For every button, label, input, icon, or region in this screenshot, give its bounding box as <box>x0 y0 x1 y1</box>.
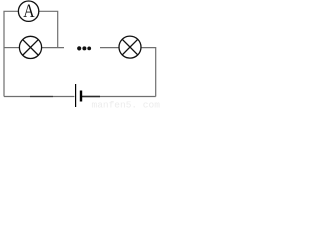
svg-text:manfen5. com: manfen5. com <box>92 100 161 111</box>
svg-text:A: A <box>23 1 35 21</box>
